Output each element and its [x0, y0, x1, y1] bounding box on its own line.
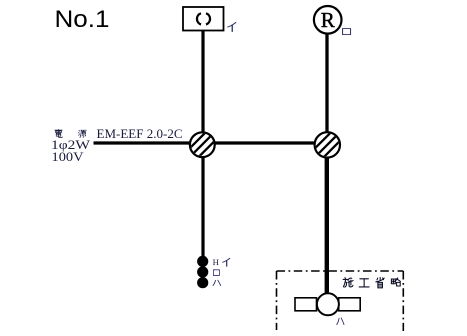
- label ハ (fluorescent light): [337, 318, 344, 324]
- label H イ (switch 1): [213, 257, 230, 267]
- text 施工省略: [343, 277, 400, 287]
- svg-text:H: H: [213, 257, 220, 267]
- switch ハ (bottom dot): [197, 277, 208, 288]
- wire: power source horizontal feed to J1 and J1 to J2: [94, 141, 315, 144]
- wire: receptacle R to junction box J2 (vertical): [325, 32, 328, 150]
- label ロ (switch 2): [213, 270, 219, 276]
- junction box J2 (hatched circle): [312, 129, 343, 160]
- svg-text:100V: 100V: [52, 150, 84, 164]
- switch ロ (middle dot): [197, 266, 208, 277]
- junction box J1 (hatched circle): [187, 129, 218, 160]
- ceiling light (pull-in ceiling body) イ: [183, 7, 224, 31]
- label イ (ceiling light): [228, 23, 236, 32]
- label ロ (receptacle): [343, 29, 351, 35]
- label ハ (switch 3): [213, 280, 221, 285]
- wire: ceiling light to junction box J1 (vertical): [201, 30, 204, 257]
- svg-text:EM-EEF 2.0-2C: EM-EEF 2.0-2C: [97, 127, 183, 141]
- wire: J2 down to fluorescent light (vertical): [325, 150, 329, 294]
- svg-text:R: R: [321, 8, 335, 32]
- lamp receptacle R ロ: [314, 6, 342, 34]
- power source label 電源 1φ2W 100V: [51, 129, 90, 164]
- svg-text:No.1: No.1: [55, 6, 110, 33]
- construction-omitted dashed box (施工省略): [277, 271, 404, 331]
- fluorescent light ハ (inside dashed box): [295, 293, 360, 315]
- switch イ with pilot light H (top dot): [197, 256, 208, 267]
